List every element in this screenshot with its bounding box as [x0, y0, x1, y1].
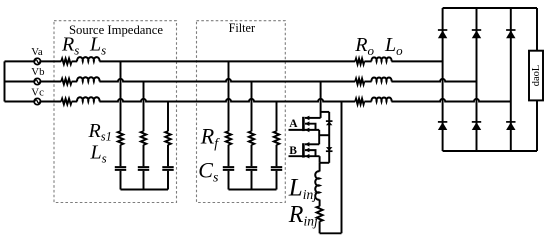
resistor Rs phase C — [61, 99, 71, 105]
resistor Ro phase B — [355, 79, 364, 85]
wire: phase C Ro to Lo — [364, 101, 371, 103]
svg-text:A: A — [289, 118, 298, 130]
resistor Rs1 branch 3 — [165, 131, 170, 145]
wire: phase C rail to source — [5, 101, 35, 103]
svg-text:Rinj: Rinj — [288, 202, 318, 229]
wire: bridge right top to load — [536, 8, 538, 51]
resistor Rinj — [317, 206, 323, 221]
wire: injection bottom return — [320, 232, 342, 234]
resistor Rf branch 3 — [274, 131, 279, 145]
wire: bottom node to diode rail — [320, 162, 330, 164]
switch A bar — [302, 117, 305, 131]
wire: phase A Rs to Ls — [72, 60, 78, 62]
svg-text:Ls: Ls — [90, 142, 107, 166]
switch A top stub — [305, 117, 321, 119]
switch B gate wire — [289, 155, 320, 157]
wire: filter branch 3 capacitor to bus — [276, 171, 278, 190]
wire: bridge bottom bus — [443, 150, 537, 152]
svg-text:Source Impedance: Source Impedance — [69, 23, 163, 37]
wire: phase B Ls to Ro with hops — [99, 79, 355, 82]
diode D3 upper — [506, 29, 515, 31]
capacitor Cs branch 1 — [223, 167, 234, 170]
wire: load to bridge bottom — [536, 100, 538, 151]
diode D6 lower — [506, 121, 515, 123]
resistor Rf branch 1 — [226, 131, 231, 145]
resistor Rs1 branch 1 — [118, 131, 123, 145]
wire: phase A Lo to bridge — [391, 60, 442, 62]
wire: filter branch 1 from phase A — [228, 61, 230, 131]
wire: branch 2 to capacitor — [143, 145, 145, 167]
svg-text:Rs: Rs — [61, 34, 79, 58]
wire: left neutral rail — [4, 61, 6, 101]
diode D4 lower — [438, 121, 447, 123]
inductor Ls phase C — [77, 97, 99, 101]
resistor Rs phase B — [61, 79, 71, 85]
wire: filter branch 3 to capacitor — [276, 145, 278, 167]
wire: mid node to diode rail — [319, 134, 329, 136]
svg-text:Vc: Vc — [31, 86, 44, 98]
dashed box: Filter — [197, 21, 286, 203]
wire: branch 1 to capacitor — [120, 145, 122, 167]
wire: filter branch 2 capacitor to bus — [251, 171, 253, 190]
wire: phase B Rs to Ls — [72, 81, 78, 83]
switch B middle stub — [305, 150, 316, 156]
svg-text:Ls: Ls — [89, 34, 106, 58]
diode D2 upper — [472, 29, 481, 31]
resistor Rs1 branch 2 — [141, 131, 146, 145]
wire: bridge leg 2 — [476, 8, 478, 151]
svg-text:Va: Va — [31, 46, 43, 58]
wire: phase C source to Rs — [40, 101, 61, 103]
svg-text:daoL: daoL — [531, 65, 542, 87]
wire: bridge leg 1 — [442, 8, 444, 151]
resistor Rf branch 2 — [249, 131, 254, 145]
diode D5 lower — [472, 121, 481, 123]
wire: phase B rail to source — [5, 81, 35, 83]
inductor Linj — [315, 171, 319, 199]
wire: tap to diode rail top — [321, 111, 330, 113]
wire: phase A rail to source — [5, 60, 35, 62]
capacitor Cs branch 3 — [271, 167, 282, 170]
svg-text:Cs: Cs — [198, 158, 219, 186]
wire: filter branch 2 to capacitor — [251, 145, 253, 167]
wire: shunt branch 1 from phase A — [120, 61, 122, 131]
resistor Ro phase C — [355, 99, 364, 105]
wire: filter bottom bus — [229, 189, 277, 191]
wire: phase C Ls to Ro with hops — [99, 99, 355, 102]
svg-text:Rf: Rf — [200, 123, 220, 151]
wire: bridge top bus — [443, 7, 537, 9]
wire: switch A bottom to mid node — [318, 130, 320, 144]
wire: phase C Rs to Ls — [72, 101, 78, 103]
wire: branch 1 capacitor to bus — [120, 171, 122, 190]
wire: phase A Ls to Ro — [99, 60, 355, 62]
switch A arrows — [305, 116, 310, 121]
wire: filter branch 3 from phase C — [276, 102, 278, 132]
dashed box: Source Impedance — [54, 21, 177, 203]
switch B arrows — [305, 142, 310, 147]
wire: filter branch 1 to capacitor — [228, 145, 230, 167]
wire: branch 3 capacitor to bus — [167, 171, 169, 190]
resistor Ro phase A — [355, 59, 364, 65]
wire: Linj to Rinj — [319, 200, 321, 207]
wire: phase C Lo to bridge with hops — [391, 99, 510, 102]
diode DB — [326, 147, 332, 151]
inductor Lo phase C — [371, 97, 391, 101]
inductor Lo phase B — [371, 77, 391, 81]
switch A middle stub — [305, 124, 316, 130]
capacitor branch 2 — [138, 167, 149, 170]
capacitor branch 1 — [115, 167, 126, 170]
wire: phase B Lo to bridge with hop — [391, 79, 476, 82]
svg-text:Lo: Lo — [384, 34, 403, 58]
diode D1 upper — [438, 29, 447, 31]
wire: diode rail — [328, 112, 330, 163]
switch A gate wire — [289, 129, 320, 131]
wire: source impedance bottom bus — [121, 189, 169, 191]
wire: shunt branch 3 from phase C — [167, 102, 169, 132]
wire: filter branch 2 from phase B — [251, 82, 253, 132]
svg-text:Rs1: Rs1 — [88, 120, 112, 144]
capacitor Cs branch 2 — [246, 167, 257, 170]
resistor Rs phase A — [61, 59, 71, 65]
capacitor branch 3 — [162, 167, 173, 170]
source Va — [34, 58, 40, 64]
wire: branch 3 to capacitor — [167, 145, 169, 167]
wire: phase B tap down to switch network — [320, 82, 322, 118]
switch B top stub — [305, 143, 319, 145]
source Vc — [34, 98, 40, 104]
diode DA — [326, 120, 333, 122]
svg-text:B: B — [289, 145, 297, 157]
wire: filter branch 1 capacitor to bus — [228, 171, 230, 190]
wire: phase B source to Rs — [40, 81, 61, 83]
load box — [529, 51, 543, 101]
wire: Rinj to bottom corner — [319, 221, 321, 233]
wire: phase A source to Rs — [40, 60, 61, 62]
wire: bridge leg 3 — [510, 8, 512, 151]
svg-text:Ro: Ro — [354, 34, 374, 58]
wire: branch 2 capacitor to bus — [143, 171, 145, 190]
svg-text:Vb: Vb — [31, 66, 44, 78]
svg-text:Filter: Filter — [229, 21, 255, 35]
source Vb — [34, 78, 40, 84]
switch B bar — [302, 143, 305, 157]
wire: switch B bottom down — [319, 156, 321, 163]
inductor Lo phase A — [371, 57, 391, 61]
wire: phase B Ro to Lo — [364, 81, 371, 83]
inductor Ls phase B — [77, 77, 99, 81]
inductor Ls phase A — [77, 57, 99, 61]
svg-text:Linj: Linj — [288, 175, 317, 203]
wire: bottom node to Linj — [319, 163, 321, 172]
wire: phase A Ro to Lo — [364, 60, 371, 62]
wire: right rail up to phase C — [341, 102, 343, 234]
wire: shunt branch 2 from phase B — [143, 82, 145, 132]
